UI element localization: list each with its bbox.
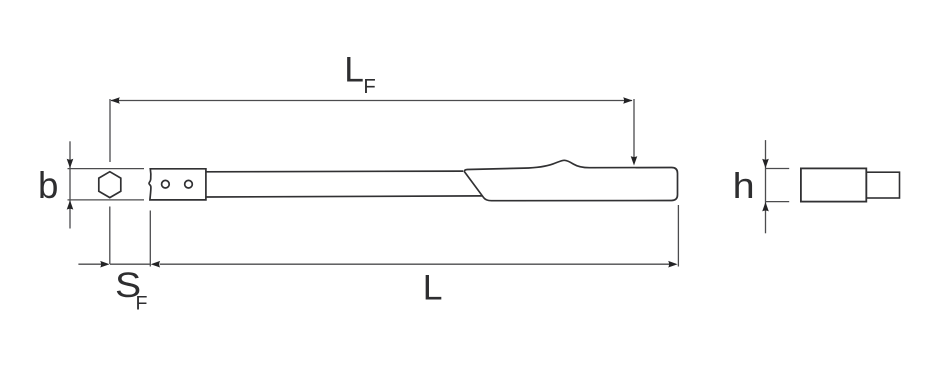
dimension b: bottom extension line bbox=[68, 199, 145, 201]
svg-text:L: L bbox=[344, 50, 364, 89]
svg-text:F: F bbox=[136, 293, 148, 315]
dimension L_F: extension line right bbox=[633, 99, 635, 157]
dimension h: top extension line bbox=[766, 168, 790, 170]
end piece: tang rectangle bbox=[866, 172, 899, 198]
label S_F bbox=[115, 265, 148, 315]
wrench head outline with break line bbox=[149, 169, 206, 200]
head hole 2 bbox=[185, 180, 193, 188]
dimension b: top arrowhead (down) bbox=[67, 159, 74, 168]
shaft bottom line bbox=[206, 196, 482, 197]
label L_F bbox=[344, 50, 375, 98]
svg-text:b: b bbox=[38, 165, 58, 206]
dimension b: vertical dimension line bbox=[69, 141, 71, 228]
dimension L_F: extension line left (hex centerline upper) bbox=[109, 99, 111, 162]
dimension h: vertical dimension line bbox=[765, 140, 767, 233]
shaft top line bbox=[206, 170, 463, 173]
dimension h: bottom extension line bbox=[766, 201, 790, 203]
dimension L: main dimension line bbox=[160, 263, 669, 265]
svg-text:h: h bbox=[733, 166, 755, 206]
dimension L_F: left arrowhead bbox=[110, 97, 119, 104]
dimension L_F: horizontal dimension line bbox=[111, 100, 632, 102]
label L bbox=[423, 267, 443, 307]
dimension L: left arrowhead (points left at break ext) bbox=[151, 261, 160, 268]
head hole 1 bbox=[162, 180, 170, 188]
handle outline with grip hump bbox=[464, 160, 677, 200]
label b bbox=[38, 165, 58, 206]
S_F right extension line bbox=[149, 211, 151, 267]
svg-text:F: F bbox=[363, 76, 375, 98]
label h bbox=[733, 166, 755, 206]
dimension L: middle segment between S_F extensions bbox=[110, 263, 150, 265]
svg-text:L: L bbox=[423, 267, 443, 307]
dimension b: top extension line bbox=[68, 168, 145, 170]
dimension L: left leader line bbox=[78, 263, 101, 265]
hex centerline lower / S_F left extension bbox=[109, 207, 111, 265]
hexagon socket opening bbox=[99, 172, 121, 198]
dimension L: right arrowhead bbox=[668, 261, 677, 268]
dimension b: bottom arrowhead (up) bbox=[67, 200, 74, 209]
dimension L: right extension line bbox=[677, 205, 679, 267]
end piece: body rectangle bbox=[801, 168, 866, 201]
dimension h: top arrowhead (down) bbox=[762, 159, 769, 168]
dimension h: bottom arrowhead (up) bbox=[762, 202, 769, 211]
dimension L_F: down arrowhead to handle force point bbox=[631, 156, 638, 165]
dimension L: S_F right arrowhead (points right at hex centerline) bbox=[100, 261, 109, 268]
dimension L_F: right arrowhead bbox=[623, 97, 632, 104]
